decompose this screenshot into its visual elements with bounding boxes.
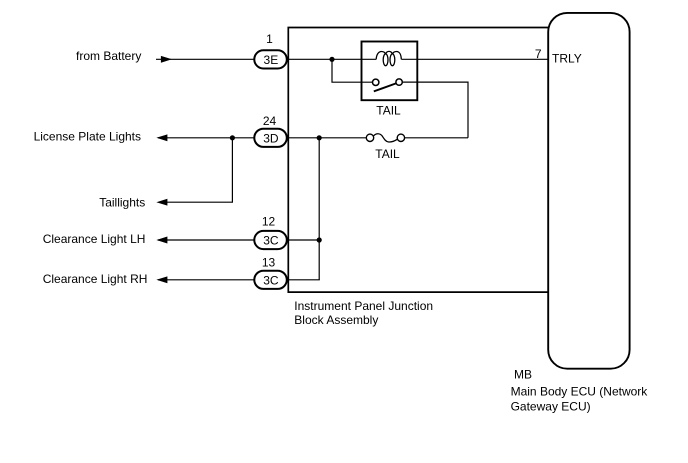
svg-text:Clearance Light LH: Clearance Light LH xyxy=(43,232,146,246)
svg-text:3D: 3D xyxy=(263,131,279,145)
label Instrument Panel Junction Block Assembly xyxy=(294,299,433,327)
arrow Clearance Light LH xyxy=(158,237,167,243)
wire 3D to TAIL fuse xyxy=(288,137,366,139)
svg-text:TAIL: TAIL xyxy=(375,147,400,161)
arrow Clearance Light RH xyxy=(158,277,167,283)
label Clearance Light LH xyxy=(43,232,146,246)
svg-text:License Plate Lights: License Plate Lights xyxy=(34,130,141,144)
svg-text:Clearance Light RH: Clearance Light RH xyxy=(43,272,148,286)
TAIL switch contact circles xyxy=(366,134,404,141)
wire taillights branch xyxy=(167,138,232,202)
svg-text:3C: 3C xyxy=(263,234,279,248)
svg-text:7: 7 xyxy=(535,47,542,61)
node dot distribution on 3D wire xyxy=(317,135,322,140)
label Taillights xyxy=(99,196,145,210)
relay TAIL box xyxy=(362,42,418,101)
label TRLY xyxy=(552,52,582,66)
connector 3D xyxy=(254,129,286,147)
label TAIL (relay) xyxy=(376,104,401,118)
pin 12 label xyxy=(262,214,276,228)
wire 3E to relay coil xyxy=(288,58,376,60)
relay switch blade xyxy=(374,83,396,91)
wire 3C lower to vertical xyxy=(288,279,320,281)
connector 3C lower xyxy=(254,271,286,289)
arrow License Plate Lights xyxy=(158,135,167,141)
pin 24 label xyxy=(263,114,277,128)
arrow into 3E (from Battery) xyxy=(161,56,170,62)
svg-text:from Battery: from Battery xyxy=(76,49,141,63)
TAIL switch curved blade xyxy=(374,134,398,142)
Instrument Panel Junction Block Assembly outline xyxy=(288,28,548,293)
svg-text:1: 1 xyxy=(266,32,273,46)
label from Battery xyxy=(76,49,141,63)
pin 7 label xyxy=(535,47,542,61)
wire from Battery to connector 3E xyxy=(156,58,254,60)
label Clearance Light RH xyxy=(43,272,148,286)
svg-text:Main Body ECU (Network: Main Body ECU (Network xyxy=(511,385,649,399)
svg-text:MB: MB xyxy=(514,368,532,382)
svg-text:12: 12 xyxy=(262,214,276,228)
wire Clearance Light LH from 3C xyxy=(158,239,254,241)
svg-text:Block Assembly: Block Assembly xyxy=(294,313,378,327)
label License Plate Lights xyxy=(34,130,141,144)
wire Clearance Light RH from 3C xyxy=(158,279,254,281)
pin 1 label xyxy=(266,32,273,46)
node junction dot on battery wire xyxy=(329,57,334,62)
relay switch contact circles xyxy=(373,79,403,86)
svg-text:24: 24 xyxy=(263,114,277,128)
wire License Plate Lights from 3D xyxy=(158,137,254,139)
pin 13 label xyxy=(262,255,276,269)
connector 3C upper xyxy=(254,231,286,249)
svg-text:Taillights: Taillights xyxy=(99,196,145,210)
label TAIL (switch) xyxy=(375,147,400,161)
svg-text:TAIL: TAIL xyxy=(376,104,401,118)
svg-text:TRLY: TRLY xyxy=(552,52,582,66)
wire TAIL switch to vertical junction xyxy=(405,137,468,139)
node dot LH junction xyxy=(317,237,322,242)
wire branch from dot down to relay switch xyxy=(332,59,373,82)
wire 3C upper to vertical xyxy=(288,239,319,241)
connector 3E xyxy=(254,50,286,68)
ECU U1 Main Body ECU rounded box xyxy=(548,13,629,369)
svg-text:Instrument Panel Junction: Instrument Panel Junction xyxy=(294,299,433,313)
svg-text:3C: 3C xyxy=(263,273,279,287)
svg-text:Gateway ECU): Gateway ECU) xyxy=(511,399,591,413)
arrow Taillights xyxy=(158,199,167,205)
wire vertical distribution to clearance lights xyxy=(318,138,320,280)
svg-text:13: 13 xyxy=(262,255,276,269)
svg-text:3E: 3E xyxy=(264,53,279,67)
wire TRLY: coil to ECU pin 7 xyxy=(401,58,548,60)
wire relay switch to right vertical xyxy=(402,82,468,138)
relay coil xyxy=(376,51,401,65)
label MB xyxy=(514,368,532,382)
label Main Body ECU (Network Gateway ECU) xyxy=(511,385,649,414)
node dot taillights branch xyxy=(230,135,235,140)
